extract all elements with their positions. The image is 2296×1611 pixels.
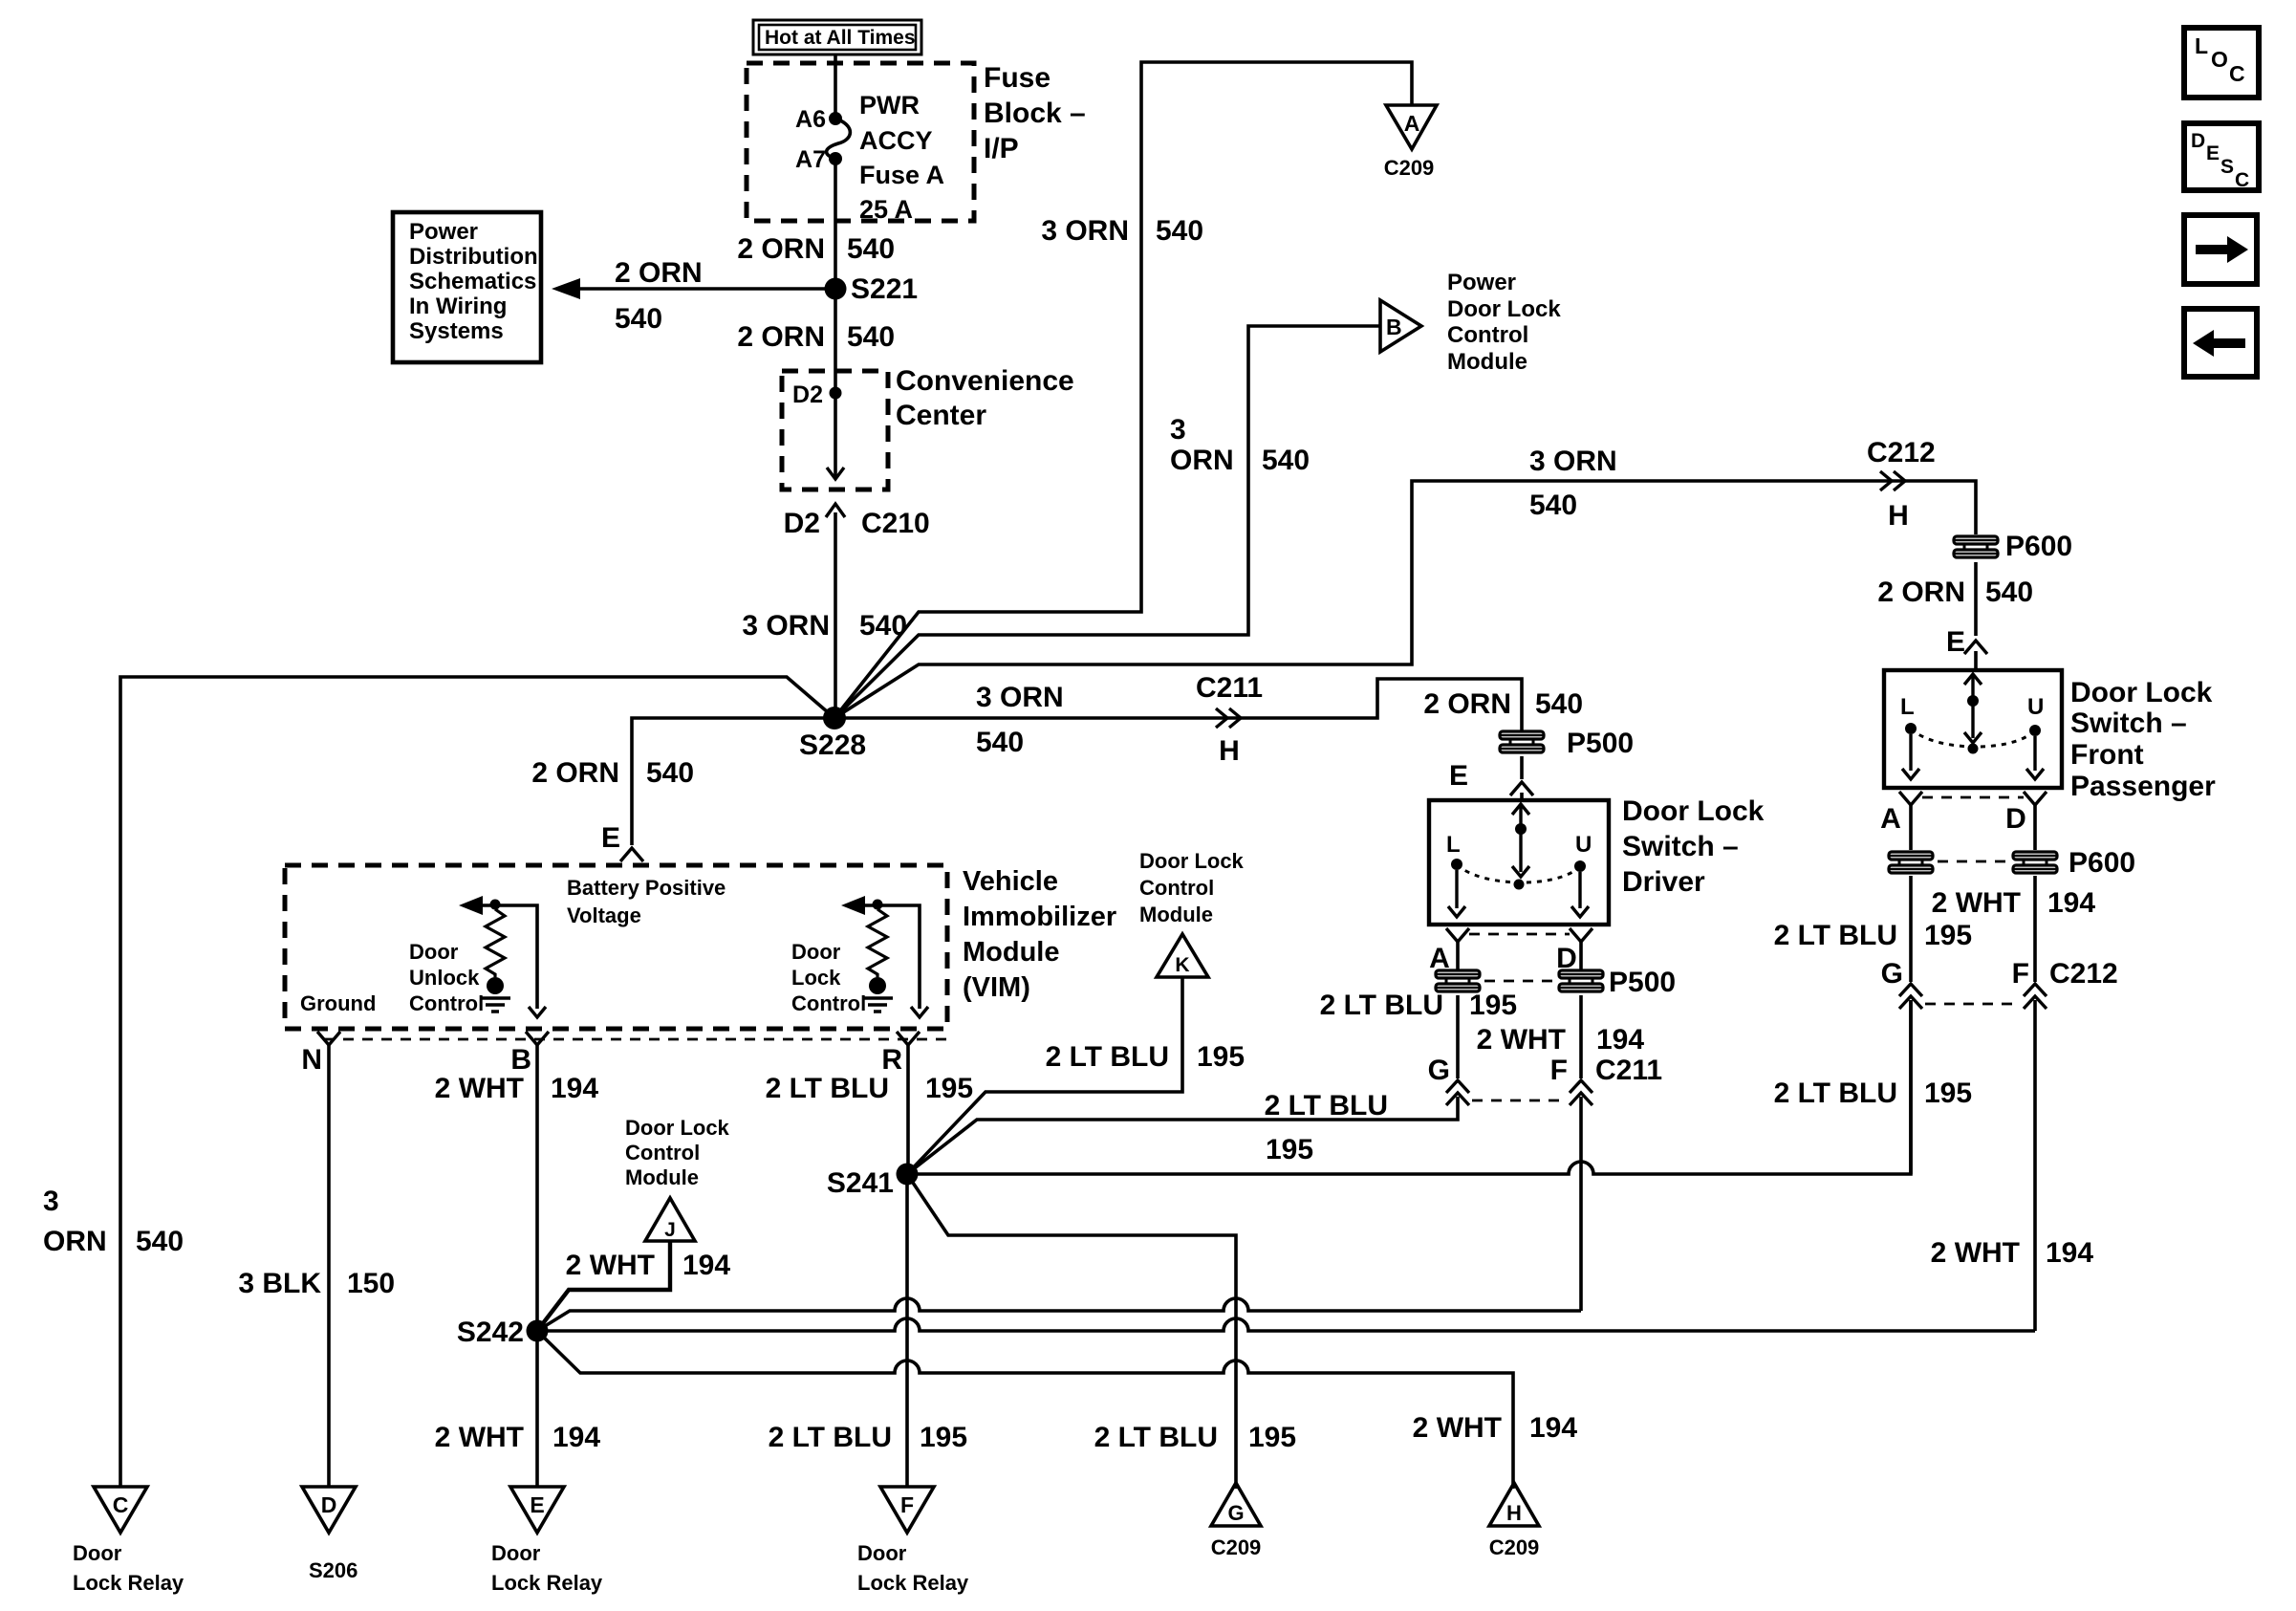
svg-text:540: 540	[976, 727, 1024, 758]
svg-text:N: N	[301, 1044, 322, 1076]
svg-text:Door Lock: Door Lock	[2070, 677, 2213, 708]
svg-text:A7: A7	[795, 146, 826, 173]
svg-text:ORN: ORN	[43, 1226, 107, 1257]
svg-text:2 WHT: 2 WHT	[435, 1422, 524, 1453]
wire 2 WHT 194 passenger pin D	[1932, 876, 2096, 982]
svg-text:Module: Module	[625, 1165, 699, 1189]
svg-text:D: D	[321, 1492, 337, 1517]
connector triangle F	[880, 1487, 934, 1533]
fuse block dashed box	[747, 63, 974, 221]
pin N VIM	[301, 1032, 340, 1076]
svg-text:Control: Control	[409, 991, 484, 1015]
svg-text:2 LT BLU: 2 LT BLU	[766, 1073, 889, 1104]
svg-text:540: 540	[1156, 215, 1203, 247]
svg-text:(VIM): (VIM)	[963, 972, 1030, 1003]
svg-text:25 A: 25 A	[859, 195, 913, 224]
svg-text:C212: C212	[1867, 437, 1936, 468]
svg-text:C211: C211	[1595, 1055, 1662, 1086]
svg-text:Front: Front	[2070, 739, 2144, 771]
svg-text:540: 540	[136, 1226, 184, 1257]
connector triangle J	[645, 1198, 695, 1241]
svg-text:540: 540	[847, 321, 895, 353]
svg-text:195: 195	[1924, 1078, 1972, 1109]
wire 2 ORN 540 fuse A7 to S221	[834, 159, 837, 289]
svg-text:D: D	[2005, 803, 2026, 835]
svg-text:540: 540	[847, 233, 895, 265]
door lock switch front passenger box	[1884, 670, 2062, 788]
connector triangle B	[1380, 300, 1421, 352]
box Power Distribution Schematics In Wiring Systems	[393, 212, 541, 362]
wire 3 ORN 540 C210 to S228	[834, 512, 837, 718]
svg-text:B: B	[510, 1044, 531, 1076]
pin E passenger switch	[1946, 626, 1987, 670]
wire 2 WHT 194 driver pin D	[1477, 995, 1645, 1078]
svg-text:Driver: Driver	[1622, 866, 1705, 898]
svg-text:D2: D2	[784, 508, 820, 539]
svg-text:540: 540	[1535, 688, 1583, 720]
svg-text:S241: S241	[827, 1167, 894, 1199]
svg-text:Module: Module	[1139, 903, 1213, 926]
svg-text:P500: P500	[1609, 967, 1676, 998]
wire 2 ORN 540 P600 to passenger switch E	[1877, 562, 2033, 636]
svg-text:540: 540	[1262, 445, 1310, 476]
svg-text:E: E	[1449, 760, 1468, 792]
svg-text:H: H	[1888, 500, 1909, 532]
svg-text:Switch –: Switch –	[1622, 831, 1739, 862]
svg-text:2 LT BLU: 2 LT BLU	[1094, 1422, 1218, 1453]
node S241	[827, 1164, 919, 1200]
svg-text:C211: C211	[1196, 672, 1263, 704]
wires switch to P600	[1909, 805, 1913, 850]
svg-text:E: E	[601, 822, 620, 854]
connector triangle H	[1489, 1483, 1539, 1526]
svg-text:Center: Center	[896, 400, 986, 431]
wire 2 WHT 194 S242 to door lock relay E	[435, 1331, 601, 1487]
svg-text:B: B	[1386, 315, 1402, 339]
svg-text:PWR: PWR	[859, 91, 920, 120]
svg-text:Door Lock: Door Lock	[1447, 296, 1561, 322]
svg-text:Voltage: Voltage	[567, 903, 641, 927]
svg-text:Immobilizer: Immobilizer	[963, 902, 1116, 932]
svg-text:Systems: Systems	[409, 318, 504, 344]
wire 2 LT BLU 195 VIM R to S241	[766, 1045, 974, 1174]
svg-text:H: H	[1506, 1501, 1522, 1525]
svg-text:P600: P600	[2005, 531, 2072, 562]
svg-text:L: L	[2195, 33, 2208, 58]
connector C212 inline symbol	[1867, 437, 1936, 532]
svg-text:In Wiring: In Wiring	[409, 294, 507, 319]
svg-text:C: C	[2229, 61, 2245, 86]
svg-text:S242: S242	[457, 1317, 524, 1348]
svg-text:Lock Relay: Lock Relay	[857, 1571, 969, 1595]
svg-text:Door: Door	[857, 1541, 907, 1565]
svg-text:P600: P600	[2069, 847, 2135, 879]
passenger switch U contact	[2026, 694, 2044, 779]
wire 2 LT BLU 195 C211 G to S241	[907, 1090, 1458, 1174]
svg-text:Door Lock: Door Lock	[1622, 795, 1765, 827]
svg-text:I/P: I/P	[984, 133, 1019, 164]
svg-text:2 WHT: 2 WHT	[435, 1073, 524, 1104]
wire 2 WHT 194 VIM B to S242	[435, 1045, 599, 1331]
svg-text:U: U	[1575, 832, 1592, 858]
VIM door lock control driver	[841, 896, 928, 1017]
wire 2 ORN 540 S221 to convenience center	[834, 289, 837, 393]
wire 2 WHT 194 S242 to C209 H with hops	[537, 1331, 1513, 1489]
label door lock relay under F	[857, 1541, 969, 1595]
svg-text:U: U	[2027, 694, 2044, 720]
connector C210 chevron	[826, 504, 845, 517]
label Fuse Block - I/P	[984, 62, 1086, 164]
svg-text:2 LT BLU: 2 LT BLU	[1774, 1078, 1897, 1109]
svg-text:D: D	[2191, 130, 2205, 152]
svg-text:Ground: Ground	[300, 991, 376, 1015]
svg-text:Door Lock: Door Lock	[1139, 849, 1245, 873]
svg-text:Control: Control	[791, 991, 866, 1015]
wire 3 ORN 540 S228 to power door lock control module B	[834, 326, 1380, 718]
svg-text:C209: C209	[1211, 1535, 1262, 1559]
svg-text:195: 195	[925, 1073, 973, 1104]
connector triangle D	[302, 1487, 356, 1533]
svg-text:2 WHT: 2 WHT	[1477, 1024, 1566, 1056]
svg-text:Lock: Lock	[791, 966, 841, 990]
driver switch bottom connector row	[1429, 928, 1592, 974]
connector C211 driver pins G and F	[1428, 1055, 1662, 1105]
svg-text:2 WHT: 2 WHT	[566, 1250, 655, 1281]
connector triangle E	[510, 1487, 564, 1533]
wire 3 ORN 540 S228 to door lock relay C (left branch)	[43, 677, 834, 1487]
svg-text:D2: D2	[792, 381, 823, 408]
wire 2 LT BLU 195 S241 to C212 G with hop	[907, 1000, 1911, 1174]
nav box right arrow	[2184, 215, 2257, 284]
driver switch U contact	[1571, 832, 1592, 917]
svg-text:C: C	[113, 1492, 129, 1517]
svg-text:3: 3	[43, 1186, 59, 1217]
svg-text:540: 540	[615, 303, 662, 335]
label door lock control module above K	[1139, 849, 1245, 926]
svg-text:ORN: ORN	[1170, 445, 1234, 476]
passenger switch bottom connector row	[1880, 792, 2047, 835]
pin A6	[829, 112, 842, 125]
svg-text:L: L	[1900, 694, 1915, 720]
wire hot feed into fuse	[834, 54, 837, 119]
svg-text:Lock Relay: Lock Relay	[73, 1571, 184, 1595]
svg-text:Door Lock: Door Lock	[625, 1116, 730, 1140]
nav box DESC	[2184, 123, 2259, 191]
svg-text:540: 540	[646, 757, 694, 789]
wire 2 WHT 194 C212 F to S242	[1931, 1000, 2094, 1331]
svg-text:2 ORN: 2 ORN	[531, 757, 619, 789]
svg-text:Door: Door	[791, 940, 841, 964]
nav box left arrow	[2184, 309, 2257, 377]
svg-text:Power: Power	[1447, 270, 1516, 295]
pin D2 convenience center	[830, 387, 842, 400]
svg-text:Schematics: Schematics	[409, 269, 536, 294]
label door lock relay under C	[73, 1541, 184, 1595]
connector P500 inline driver E	[1423, 688, 1634, 759]
svg-text:J: J	[664, 1219, 676, 1241]
svg-text:H: H	[1219, 735, 1240, 767]
connector P600 passenger pins A and D	[1889, 847, 2135, 879]
wire 2 LT BLU 195 S241 to K door lock control module	[907, 977, 1245, 1174]
svg-text:Passenger: Passenger	[2070, 771, 2216, 802]
driver switch L contact	[1446, 832, 1465, 917]
connector triangle A	[1386, 105, 1437, 149]
wire 2 LT BLU 195 S241 to C209 G	[907, 1174, 1296, 1489]
svg-text:Fuse A: Fuse A	[859, 161, 944, 189]
wire 2 LT BLU 195 S241 to door lock relay F	[769, 1174, 968, 1487]
passenger switch common arm	[1964, 674, 1982, 743]
svg-text:Block –: Block –	[984, 98, 1086, 129]
svg-text:Control: Control	[1447, 322, 1528, 348]
svg-text:195: 195	[1469, 990, 1517, 1021]
label door lock switch driver	[1622, 795, 1765, 898]
svg-text:Control: Control	[1139, 876, 1214, 900]
svg-text:S221: S221	[851, 273, 918, 305]
passenger switch wiper dashed arc	[1911, 729, 2035, 754]
nav box LOC	[2184, 28, 2259, 98]
svg-text:195: 195	[1197, 1041, 1245, 1073]
svg-text:E: E	[530, 1492, 544, 1517]
svg-text:3: 3	[1170, 414, 1186, 446]
label door lock switch front passenger	[2070, 677, 2216, 802]
svg-text:Vehicle: Vehicle	[963, 866, 1058, 897]
svg-text:Door: Door	[409, 940, 459, 964]
pin E VIM	[601, 822, 643, 861]
label power door lock control module	[1447, 270, 1561, 375]
svg-text:C209: C209	[1489, 1535, 1540, 1559]
label box Hot at All Times	[753, 20, 921, 54]
svg-text:195: 195	[920, 1422, 967, 1453]
svg-text:2 LT BLU: 2 LT BLU	[1320, 990, 1443, 1021]
connector triangle C	[94, 1487, 147, 1533]
svg-text:ACCY: ACCY	[859, 126, 933, 155]
connector C211 inline on wire S228 to driver switch	[834, 672, 1522, 767]
svg-text:L: L	[1446, 832, 1461, 858]
svg-text:2 LT BLU: 2 LT BLU	[1774, 920, 1897, 951]
svg-text:194: 194	[552, 1422, 600, 1453]
svg-text:3 ORN: 3 ORN	[976, 682, 1064, 713]
svg-text:540: 540	[1529, 490, 1577, 521]
svg-text:S206: S206	[309, 1558, 357, 1582]
VIM door unlock control driver	[459, 896, 546, 1017]
svg-text:2 ORN: 2 ORN	[737, 321, 825, 353]
svg-text:Module: Module	[963, 937, 1060, 968]
svg-text:E: E	[1946, 626, 1965, 658]
pin B VIM	[510, 1032, 549, 1076]
svg-text:A: A	[1880, 803, 1901, 835]
svg-text:2 LT BLU: 2 LT BLU	[769, 1422, 892, 1453]
svg-text:194: 194	[2046, 1237, 2093, 1269]
svg-text:540: 540	[1985, 577, 2033, 608]
svg-text:194: 194	[682, 1250, 730, 1281]
convenience center dashed box	[782, 371, 888, 490]
pin R VIM	[881, 1032, 920, 1076]
svg-text:Power: Power	[409, 219, 478, 245]
svg-text:O: O	[2211, 47, 2228, 72]
connector C212 passenger pins G and F	[1881, 958, 2118, 1009]
svg-text:Distribution: Distribution	[409, 244, 538, 270]
connector P600 inline passenger E	[1954, 531, 2072, 562]
svg-text:3 BLK: 3 BLK	[238, 1268, 321, 1299]
svg-text:C209: C209	[1384, 156, 1435, 180]
svg-text:Convenience: Convenience	[896, 365, 1074, 397]
svg-text:F: F	[2012, 958, 2029, 990]
passenger switch L contact	[1900, 694, 1919, 779]
label door lock control module above J	[625, 1116, 730, 1189]
svg-text:F: F	[1550, 1055, 1568, 1086]
label Convenience Center	[896, 365, 1074, 431]
svg-text:195: 195	[1266, 1134, 1313, 1165]
svg-text:C210: C210	[861, 508, 930, 539]
wire convenience center internal with arrow	[827, 393, 844, 479]
svg-text:G: G	[1227, 1501, 1244, 1525]
svg-text:S228: S228	[799, 729, 866, 761]
wire 2 LT BLU 195 driver pin A	[1320, 990, 1518, 1078]
node S242	[457, 1317, 549, 1348]
svg-text:195: 195	[1924, 920, 1972, 951]
wire 3 ORN 540 S228 to C209 triangle A	[834, 62, 1412, 718]
label vehicle immobilizer module	[963, 866, 1116, 1003]
connector triangle G	[1211, 1483, 1261, 1526]
wire 2 LT BLU 195 C212 G to S241	[1774, 1000, 1973, 1174]
fuse PWR ACCY Fuse A 25A	[827, 119, 851, 159]
wire 3 BLK 150 VIM N to S206	[238, 1045, 395, 1487]
svg-text:3 ORN: 3 ORN	[742, 610, 830, 642]
svg-text:2 LT BLU: 2 LT BLU	[1265, 1090, 1388, 1121]
svg-text:Unlock: Unlock	[409, 966, 480, 990]
svg-text:S: S	[2220, 156, 2234, 178]
svg-text:Switch –: Switch –	[2070, 708, 2187, 739]
node S221	[825, 278, 847, 300]
wire 2 WHT 194 C211 F to S242	[1579, 1097, 1583, 1311]
svg-text:2 ORN: 2 ORN	[1423, 688, 1511, 720]
label door lock control	[791, 940, 866, 1015]
svg-text:3 ORN: 3 ORN	[1041, 215, 1129, 247]
svg-text:Control: Control	[625, 1141, 700, 1165]
wire P500 to driver switch E	[1520, 756, 1524, 779]
label door unlock control	[409, 940, 484, 1015]
svg-text:Door: Door	[73, 1541, 122, 1565]
connector P500 driver pins A and D	[1436, 967, 1676, 998]
VIM bottom connector dashed line	[324, 1038, 948, 1041]
wire 2 ORN 540 S228 to VIM E	[531, 718, 834, 845]
svg-text:Fuse: Fuse	[984, 62, 1051, 94]
svg-text:2 ORN: 2 ORN	[1877, 577, 1965, 608]
svg-text:Hot at All Times: Hot at All Times	[765, 27, 916, 49]
label door lock relay under E	[491, 1541, 603, 1595]
pin E driver switch	[1449, 760, 1533, 800]
svg-text:K: K	[1175, 954, 1189, 976]
svg-text:150: 150	[347, 1268, 395, 1299]
svg-text:3 ORN: 3 ORN	[1529, 446, 1617, 477]
svg-text:G: G	[1881, 958, 1903, 990]
pin A7	[829, 152, 842, 165]
wire 2 WHT 194 S242 to J door lock control module	[537, 1241, 730, 1331]
svg-text:2 WHT: 2 WHT	[1413, 1412, 1502, 1444]
svg-text:P500: P500	[1567, 728, 1634, 759]
svg-text:G: G	[1428, 1055, 1450, 1086]
wire 2 LT BLU 195 passenger pin A	[1774, 876, 1973, 982]
svg-text:194: 194	[1596, 1024, 1644, 1056]
wire S242 to C212 F with hops	[537, 1318, 2035, 1331]
svg-text:2 WHT: 2 WHT	[1932, 887, 2021, 919]
wires switch to P500	[1456, 942, 1460, 969]
svg-text:F: F	[900, 1492, 914, 1517]
svg-text:2 ORN: 2 ORN	[737, 233, 825, 265]
svg-text:195: 195	[1248, 1422, 1296, 1453]
svg-text:Module: Module	[1447, 349, 1527, 375]
svg-text:C: C	[2235, 169, 2249, 191]
svg-text:C212: C212	[2049, 958, 2118, 990]
vehicle immobilizer module dashed box	[285, 865, 947, 1029]
wire 2 ORN 540 S221 to power distribution (left arrow)	[552, 257, 835, 335]
svg-text:194: 194	[1529, 1412, 1577, 1444]
svg-text:Door: Door	[491, 1541, 541, 1565]
wire S242 to C211 F (2 WHT 194) with hops	[537, 1298, 1581, 1331]
svg-text:Lock Relay: Lock Relay	[491, 1571, 603, 1595]
svg-text:Battery Positive: Battery Positive	[567, 876, 726, 900]
svg-text:194: 194	[2047, 887, 2095, 919]
svg-text:E: E	[2206, 142, 2220, 164]
connector triangle K	[1157, 934, 1208, 977]
svg-text:R: R	[881, 1044, 902, 1076]
node S228	[823, 707, 846, 729]
svg-text:2 WHT: 2 WHT	[1931, 1237, 2020, 1269]
svg-text:2 LT BLU: 2 LT BLU	[1046, 1041, 1169, 1073]
svg-text:2 ORN: 2 ORN	[615, 257, 703, 289]
svg-text:A: A	[1404, 111, 1420, 136]
wire 3 ORN 540 S228 to C212 front passenger	[834, 446, 1976, 718]
svg-text:194: 194	[551, 1073, 598, 1104]
door lock switch driver box	[1429, 800, 1609, 925]
driver switch wiper dashed arc	[1457, 864, 1580, 890]
driver switch common arm	[1512, 804, 1529, 877]
svg-text:A6: A6	[795, 106, 826, 133]
label battery positive voltage	[567, 876, 726, 927]
